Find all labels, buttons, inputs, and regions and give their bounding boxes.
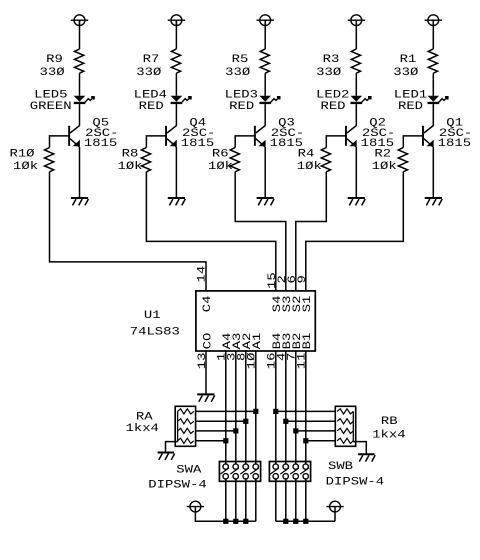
LED LED4 RED bbox=[134, 89, 192, 113]
svg-text:1Ø: 1Ø bbox=[247, 352, 259, 369]
wire bbox=[305, 479, 307, 521]
wire bbox=[196, 440, 226, 442]
wire bbox=[296, 430, 336, 432]
ground bbox=[257, 198, 275, 205]
svg-text:1Øk: 1Øk bbox=[13, 161, 39, 173]
wire bbox=[166, 442, 178, 453]
wire bbox=[276, 507, 335, 522]
wire bbox=[264, 147, 266, 198]
pin number 4 bbox=[277, 352, 289, 361]
pin label S3 bbox=[282, 296, 294, 313]
power symbol +V column 3 bbox=[257, 15, 274, 26]
svg-text:14: 14 bbox=[197, 265, 209, 282]
svg-text:RED: RED bbox=[398, 101, 424, 113]
wire bbox=[296, 172, 327, 291]
svg-text:33Ø: 33Ø bbox=[40, 67, 66, 79]
wire bbox=[195, 507, 255, 522]
pin label A3 bbox=[232, 333, 244, 350]
svg-text:33Ø: 33Ø bbox=[136, 67, 162, 79]
wire bbox=[225, 479, 227, 521]
op-amp U1 74LS83 IC box bbox=[130, 291, 316, 351]
resistor network RB 1kx4 bbox=[335, 406, 406, 446]
svg-text:R9: R9 bbox=[46, 54, 63, 66]
ground bbox=[358, 454, 375, 461]
wire bbox=[295, 351, 297, 464]
LED LED1 RED bbox=[394, 89, 449, 113]
svg-text:CO: CO bbox=[202, 332, 214, 349]
resistor R10 10k bbox=[9, 148, 53, 173]
wire bbox=[275, 351, 277, 464]
svg-text:RA: RA bbox=[136, 412, 153, 424]
svg-text:R3: R3 bbox=[323, 54, 340, 66]
svg-text:S1: S1 bbox=[302, 295, 314, 312]
svg-text:1kx4: 1kx4 bbox=[126, 423, 160, 435]
svg-text:1815: 1815 bbox=[84, 138, 117, 150]
svg-text:9: 9 bbox=[297, 275, 309, 283]
power symbol +V column 1 bbox=[425, 15, 442, 26]
node bbox=[283, 519, 288, 524]
svg-text:1815: 1815 bbox=[181, 138, 214, 150]
ground bbox=[197, 394, 215, 401]
pin number 15 bbox=[267, 272, 279, 289]
svg-text:RED: RED bbox=[229, 101, 255, 113]
svg-text:R5: R5 bbox=[232, 54, 249, 66]
pin label B4 bbox=[272, 332, 284, 349]
wire bbox=[79, 20, 81, 49]
wire bbox=[355, 20, 357, 49]
pin label CO bbox=[202, 332, 214, 349]
transistor Q2 2SC-1815 bbox=[345, 117, 395, 150]
power symbol +V column 5 bbox=[71, 15, 88, 26]
resistor R4 10k bbox=[297, 148, 331, 173]
wire bbox=[196, 410, 256, 412]
wire bbox=[175, 20, 177, 49]
wire bbox=[306, 440, 336, 442]
wire bbox=[245, 351, 247, 464]
resistor R8 10k bbox=[117, 148, 150, 173]
svg-text:SWA: SWA bbox=[176, 464, 202, 476]
wire bbox=[175, 147, 177, 198]
pin label S4 bbox=[272, 295, 284, 312]
svg-text:LED2: LED2 bbox=[316, 89, 349, 101]
wire bbox=[235, 136, 256, 148]
ground bbox=[425, 198, 443, 205]
wire bbox=[205, 351, 207, 394]
wire bbox=[196, 420, 246, 422]
LED LED2 RED bbox=[316, 89, 372, 113]
resistor R1 330 bbox=[393, 49, 437, 79]
ground bbox=[71, 198, 89, 205]
wire bbox=[245, 479, 247, 521]
resistor network RA 1kx4 bbox=[126, 406, 196, 446]
wire bbox=[50, 136, 71, 148]
node bbox=[233, 428, 238, 433]
resistor R5 330 bbox=[225, 49, 269, 79]
wire bbox=[355, 104, 357, 126]
pin number 9 bbox=[297, 275, 309, 283]
resistor R7 330 bbox=[136, 49, 180, 79]
pin label B3 bbox=[282, 333, 294, 350]
svg-text:13: 13 bbox=[197, 353, 209, 370]
svg-text:R1Ø: R1Ø bbox=[9, 149, 35, 161]
wire bbox=[295, 479, 297, 521]
svg-text:11: 11 bbox=[297, 352, 309, 369]
wire bbox=[286, 420, 336, 422]
power symbol +V bottom right bbox=[326, 501, 343, 512]
svg-text:R8: R8 bbox=[122, 149, 139, 161]
svg-text:1Øk: 1Øk bbox=[372, 161, 398, 173]
svg-text:1Øk: 1Øk bbox=[297, 161, 323, 173]
wire bbox=[50, 172, 207, 291]
wire bbox=[225, 351, 227, 464]
LED LED3 RED bbox=[225, 89, 281, 113]
node bbox=[283, 419, 288, 424]
node bbox=[293, 428, 298, 433]
svg-text:R6: R6 bbox=[212, 149, 229, 161]
wire bbox=[79, 73, 81, 96]
wire bbox=[175, 73, 177, 96]
pin label S2 bbox=[292, 296, 304, 313]
node bbox=[223, 519, 228, 524]
resistor R6 10k bbox=[208, 148, 239, 173]
pin number 13 bbox=[197, 353, 209, 370]
node bbox=[223, 438, 228, 443]
wire bbox=[355, 73, 357, 96]
wire bbox=[175, 104, 177, 126]
svg-text:R1: R1 bbox=[400, 54, 417, 66]
node bbox=[233, 519, 238, 524]
pin label S1 bbox=[302, 295, 314, 312]
svg-text:1kx4: 1kx4 bbox=[372, 429, 406, 441]
pin label A1 bbox=[252, 332, 264, 349]
svg-text:LED3: LED3 bbox=[225, 89, 258, 101]
svg-text:R2: R2 bbox=[374, 149, 391, 161]
pin label A4 bbox=[222, 332, 234, 349]
ground bbox=[348, 198, 366, 205]
svg-text:1Øk: 1Øk bbox=[117, 161, 143, 173]
node bbox=[253, 409, 258, 414]
pin number 3 bbox=[227, 353, 239, 361]
svg-text:RED: RED bbox=[320, 101, 346, 113]
pin number 14 bbox=[197, 265, 209, 282]
pin label A2 bbox=[242, 333, 254, 350]
svg-text:RED: RED bbox=[139, 101, 165, 113]
svg-text:33Ø: 33Ø bbox=[393, 67, 419, 79]
wire bbox=[79, 147, 81, 198]
transistor Q3 2SC-1815 bbox=[254, 117, 304, 150]
svg-text:74LS83: 74LS83 bbox=[130, 326, 180, 338]
switch SWA DIPSW-4 bbox=[148, 462, 260, 492]
wire bbox=[264, 104, 266, 126]
svg-text:DIPSW-4: DIPSW-4 bbox=[148, 479, 207, 491]
wire bbox=[146, 136, 167, 148]
wire bbox=[403, 136, 424, 148]
wire bbox=[355, 147, 357, 198]
wire bbox=[235, 351, 237, 464]
svg-text:LED1: LED1 bbox=[394, 89, 428, 101]
ground bbox=[168, 198, 186, 205]
node bbox=[273, 409, 278, 414]
svg-text:RB: RB bbox=[381, 416, 398, 428]
svg-text:B1: B1 bbox=[302, 332, 314, 349]
node bbox=[243, 519, 248, 524]
svg-text:LED5: LED5 bbox=[34, 89, 67, 101]
node bbox=[303, 519, 308, 524]
svg-text:R7: R7 bbox=[143, 54, 160, 66]
svg-text:A1: A1 bbox=[252, 332, 264, 349]
power symbol +V column 4 bbox=[168, 15, 185, 26]
wire bbox=[275, 479, 277, 521]
wire bbox=[255, 351, 257, 464]
wire bbox=[79, 104, 81, 126]
svg-text:1Øk: 1Øk bbox=[208, 161, 234, 173]
wire bbox=[264, 20, 266, 49]
svg-text:DIPSW-4: DIPSW-4 bbox=[326, 476, 385, 488]
wire bbox=[353, 442, 366, 455]
pin label C4 bbox=[202, 295, 214, 312]
wire bbox=[264, 73, 266, 96]
pin number 16 bbox=[267, 353, 279, 370]
wire bbox=[276, 410, 336, 412]
svg-text:LED4: LED4 bbox=[134, 89, 168, 101]
ground bbox=[158, 453, 175, 460]
LED LED5 GREEN bbox=[30, 89, 95, 113]
wire bbox=[432, 73, 434, 96]
svg-text:1815: 1815 bbox=[438, 138, 471, 150]
wire bbox=[432, 147, 434, 198]
pin number 11 bbox=[297, 352, 309, 369]
svg-text:33Ø: 33Ø bbox=[225, 67, 251, 79]
pin number 10 bbox=[247, 352, 259, 369]
resistor R9 330 bbox=[40, 49, 84, 79]
svg-text:33Ø: 33Ø bbox=[316, 67, 342, 79]
wire bbox=[326, 136, 347, 148]
pin label B1 bbox=[302, 332, 314, 349]
pin number 6 bbox=[287, 275, 299, 283]
svg-text:GREEN: GREEN bbox=[30, 101, 72, 113]
wire bbox=[432, 20, 434, 49]
pin number 7 bbox=[287, 353, 299, 361]
wire bbox=[235, 172, 286, 291]
wire bbox=[196, 430, 236, 432]
svg-text:R4: R4 bbox=[298, 149, 315, 161]
wire bbox=[305, 351, 307, 464]
node bbox=[243, 419, 248, 424]
wire bbox=[285, 479, 287, 521]
wire bbox=[235, 479, 237, 521]
svg-text:C4: C4 bbox=[202, 295, 214, 312]
node bbox=[293, 519, 298, 524]
pin number 2 bbox=[277, 275, 289, 283]
resistor R2 10k bbox=[372, 148, 408, 173]
transistor Q4 2SC-1815 bbox=[165, 117, 215, 150]
svg-text:SWB: SWB bbox=[328, 461, 354, 473]
wire bbox=[306, 172, 404, 291]
power symbol +V column 2 bbox=[348, 15, 365, 26]
pin number 1 bbox=[217, 352, 229, 361]
transistor Q5 2SC-1815 bbox=[68, 117, 118, 150]
pin number 8 bbox=[237, 353, 249, 361]
wire bbox=[285, 351, 287, 464]
wire bbox=[255, 479, 257, 521]
svg-text:U1: U1 bbox=[144, 310, 161, 322]
wire bbox=[432, 104, 434, 126]
pin label B2 bbox=[292, 333, 304, 350]
switch SWB DIPSW-4 bbox=[269, 461, 384, 488]
transistor Q1 2SC-1815 bbox=[422, 117, 472, 150]
power symbol +V bottom left bbox=[187, 501, 204, 512]
wire bbox=[146, 172, 275, 291]
node bbox=[303, 438, 308, 443]
resistor R3 330 bbox=[316, 49, 360, 79]
